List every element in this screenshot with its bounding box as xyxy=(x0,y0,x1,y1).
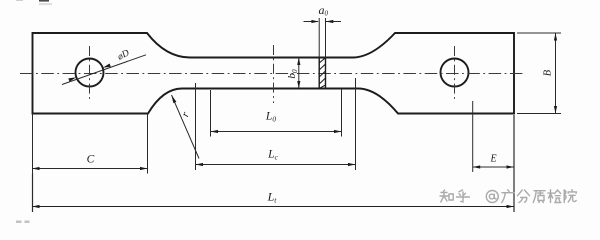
svg-text:B: B xyxy=(543,69,554,76)
svg-text:C: C xyxy=(87,154,95,166)
svg-text:E: E xyxy=(489,154,496,165)
